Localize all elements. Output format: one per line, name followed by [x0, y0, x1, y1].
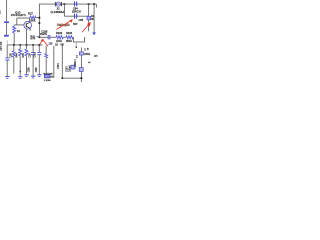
ground (col3) [18, 77, 22, 79]
junction dot [88, 3, 90, 5]
colD: wire [80, 48, 82, 83]
resistor R324 [66, 36, 73, 39]
wire top horizontal [39, 3, 96, 5]
wire [38, 55, 40, 75]
svg-text:R27: R27 [28, 11, 33, 15]
ground (col4) [24, 75, 28, 77]
crystal X1 [55, 2, 61, 7]
svg-text:C306 1: C306 1 [74, 59, 77, 67]
wire rail left drop [6, 41, 8, 45]
col1: wire [6, 45, 8, 58]
svg-text:1K: 1K [17, 29, 20, 33]
svg-text:CB7 470: CB7 470 [1, 41, 3, 51]
svg-text:C304: C304 [58, 63, 60, 69]
colB: wire [53, 46, 55, 78]
svg-text:C303: C303 [66, 66, 68, 72]
wire left input vertical [6, 0, 8, 21]
wire jog down [73, 37, 84, 42]
svg-text:68RJ: 68RJ [66, 39, 73, 43]
svg-text:BL4: BL4 [0, 9, 1, 14]
wire bottom connect [62, 77, 81, 79]
wire resistor to rail [13, 34, 15, 46]
resistor R (0R jumper box) [87, 16, 91, 20]
wire collector node horizontal [17, 17, 30, 19]
svg-text:Q10: Q10 [15, 11, 21, 15]
junction dot [39, 36, 41, 38]
capacitor C (left column plate) [4, 21, 9, 23]
junction dot (bottom wire left) [62, 77, 64, 79]
wire to C296 [39, 36, 48, 38]
wire [6, 61, 8, 77]
wire faint stub below jog [75, 42, 77, 47]
junction dot [32, 44, 34, 46]
capacitor (col1) [5, 58, 9, 60]
capacitor C85 [75, 14, 77, 19]
resistor R27 horizontal [29, 16, 35, 19]
colC: wire [61, 43, 63, 78]
wire [50, 36, 56, 38]
junction dot (top wire / drop) [64, 3, 66, 5]
junction dot [13, 44, 15, 46]
junction small [20, 71, 22, 72]
svg-text:30P: 30P [73, 23, 78, 26]
resistor (col2) [12, 51, 15, 57]
svg-text:C89: C89 [34, 67, 38, 72]
jumper box (colD lower) [79, 68, 83, 72]
junction dot [39, 17, 41, 19]
resistor (col4) [25, 49, 28, 57]
junction dot [39, 22, 41, 24]
wire [63, 36, 66, 38]
col6: wire [38, 45, 40, 52]
wire emitter rail [7, 44, 42, 46]
col3: wire [19, 45, 21, 49]
svg-text:OH: OH [94, 56, 98, 58]
wire collector stub [29, 18, 31, 23]
resistor R1 vertical (base bias) [13, 25, 16, 34]
capacitor (col5) [31, 53, 35, 55]
pin dot [76, 47, 77, 48]
svg-text:135: 135 [48, 43, 53, 46]
svg-text:R323: R323 [56, 31, 63, 35]
svg-text:1B: 1B [55, 43, 58, 46]
ceramic filter box [44, 74, 50, 78]
wire [32, 55, 34, 76]
svg-text:100K: 100K [29, 19, 35, 23]
wire emitter down [26, 29, 28, 45]
wire [19, 57, 21, 77]
svg-text:11.2459MHz: 11.2459MHz [50, 10, 65, 14]
jumper box (colC right) [71, 65, 75, 69]
wire drop to second row [63, 4, 65, 16]
wire right bus 2 [93, 4, 95, 32]
transistor Q10 [24, 21, 32, 29]
svg-text:15P/CH: 15P/CH [72, 9, 81, 13]
svg-text:1N4/7H: 1N4/7H [40, 32, 47, 36]
jumper box (colD upper) [79, 52, 83, 55]
colA: wire [45, 45, 47, 53]
wire base [14, 24, 24, 26]
svg-text:1.52M: 1.52M [44, 80, 51, 82]
junction dot [39, 44, 41, 46]
svg-text:C85: C85 [79, 19, 84, 22]
svg-text:22RJ: 22RJ [56, 39, 63, 43]
junction dot [81, 77, 83, 79]
resistor (colA) [45, 53, 48, 58]
col4: wire [26, 45, 28, 49]
ground (col5) [31, 76, 35, 78]
ground (col6) [37, 75, 41, 77]
junction dot [93, 3, 95, 5]
junction dot [26, 44, 28, 46]
svg-text:C88: C88 [26, 67, 30, 72]
wire main vertical node [38, 4, 40, 38]
resistor R323 [56, 36, 63, 39]
ground (col1) [5, 77, 9, 79]
svg-text:D502: D502 [84, 53, 91, 56]
wire top right end stub [95, 4, 97, 7]
capacitor C296 [48, 35, 50, 39]
wire right bus 1 [88, 4, 90, 31]
capacitor C84 [75, 1, 77, 6]
wire corner down to base [16, 18, 18, 25]
wire [6, 23, 8, 34]
resistor (col3) [19, 49, 22, 57]
wire R27 to node [36, 17, 40, 19]
svg-text:C101: C101 [35, 51, 37, 57]
svg-text:R324: R324 [66, 31, 73, 35]
blue tick near node [37, 35, 39, 38]
wire [45, 58, 47, 74]
col5: wire [32, 45, 34, 52]
annotation red arrow A [57, 19, 73, 29]
ground (left column) [4, 35, 9, 37]
net arrow down (blue) [92, 32, 96, 35]
junction dot [19, 44, 21, 46]
annotation red arrow B [82, 22, 91, 32]
wire [26, 57, 28, 75]
wire [13, 57, 15, 74]
annotation red X over C296 [38, 39, 48, 47]
capacitor (col6) [37, 53, 41, 55]
col2: wire [13, 45, 15, 51]
wire second row horizontal [64, 15, 88, 17]
